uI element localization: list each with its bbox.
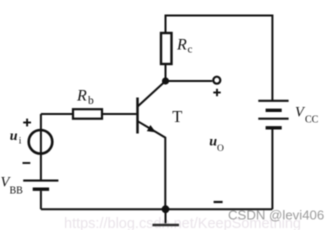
svg-text:R: R xyxy=(76,88,87,105)
svg-text:b: b xyxy=(88,95,94,107)
svg-text:u: u xyxy=(10,129,18,144)
svg-text:O: O xyxy=(217,144,224,154)
svg-text:c: c xyxy=(188,44,193,56)
svg-text:CC: CC xyxy=(305,114,319,125)
svg-text:i: i xyxy=(19,137,22,147)
svg-text:BB: BB xyxy=(10,186,24,197)
svg-text:T: T xyxy=(172,107,182,126)
svg-text:CSDN @levi406: CSDN @levi406 xyxy=(228,208,324,223)
svg-text:R: R xyxy=(176,36,187,53)
